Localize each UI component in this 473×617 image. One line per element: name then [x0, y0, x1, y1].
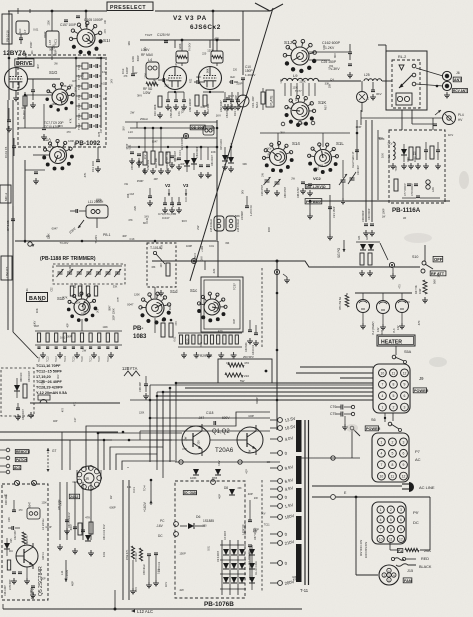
S10 wire up: [424, 245, 426, 261]
svg-text:BAND: BAND: [29, 296, 46, 302]
resistor R2: [23, 96, 27, 106]
svg-text:1KV: 1KV: [111, 78, 114, 83]
svg-text:C78 1500P: C78 1500P: [411, 183, 414, 196]
svg-text:L25: L25: [364, 73, 370, 77]
coil L25: [364, 79, 382, 81]
svg-text:120K: 120K: [145, 73, 147, 79]
svg-text:10K: 10K: [105, 20, 107, 25]
svg-text:56K: 56K: [206, 68, 210, 73]
wire caps cluster to bottom: [114, 590, 116, 609]
svg-text:40P: 40P: [248, 492, 253, 496]
svg-text:PB-1076B: PB-1076B: [204, 601, 234, 608]
svg-text:11: 11: [392, 371, 396, 375]
bridge rails: [221, 540, 223, 595]
svg-text:C43 644: C43 644: [245, 342, 248, 352]
component grid under S1B wires: [35, 330, 122, 332]
svg-text:12: 12: [399, 537, 403, 541]
wire S1I stem: [85, 11, 87, 27]
coupling capacitor 3uF V2-V3: [196, 80, 198, 84]
cluster resistors: [78, 523, 82, 535]
svg-text:3: 3: [400, 508, 402, 512]
svg-text:120K: 120K: [132, 56, 135, 62]
svg-text:PO ADJ: PO ADJ: [306, 199, 321, 204]
cap column x330: [329, 195, 331, 234]
svg-text:FAN: FAN: [404, 579, 412, 583]
svg-text:100P: 100P: [51, 103, 57, 106]
svg-text:R44: R44: [358, 235, 361, 240]
dots on J9 bus: [175, 382, 178, 385]
svg-text:10: 10: [379, 537, 383, 541]
terminal GT: [191, 258, 196, 263]
svg-text:47K: 47K: [293, 579, 298, 582]
svg-text:9: 9: [403, 463, 405, 467]
svg-text:R48: R48: [407, 157, 410, 162]
wire to relay: [382, 80, 392, 82]
svg-text:10K: 10K: [211, 150, 216, 154]
svg-text:1KV: 1KV: [144, 46, 147, 51]
svg-text:600P: 600P: [255, 397, 259, 404]
svg-text:1KV: 1KV: [72, 81, 77, 83]
svg-text:100P: 100P: [355, 125, 361, 129]
bus wires into J9: [300, 366, 373, 368]
long wire to switch: [152, 261, 420, 267]
svg-text:24S2: 24S2: [70, 495, 78, 499]
svg-text:S1I: S1I: [103, 38, 110, 43]
svg-text:C11 1KV: C11 1KV: [91, 161, 95, 172]
svg-text:0.01: 0.01: [102, 70, 108, 74]
svg-text:150P: 150P: [210, 125, 214, 132]
svg-text:7: 7: [381, 383, 383, 387]
svg-text:0.01: 0.01: [157, 569, 160, 574]
svg-text:10W: 10W: [418, 288, 422, 294]
grounds under grid: [42, 352, 44, 355]
V3 cathode parts: [203, 91, 224, 93]
svg-text:TC13: TC13: [56, 356, 58, 362]
svg-text:100V 80V 60V: 100V 80V 60V: [365, 542, 368, 558]
svg-text:47K: 47K: [83, 172, 87, 177]
svg-text:VC2: VC2: [313, 176, 322, 181]
junction dots mid cluster: [144, 127, 147, 130]
svg-text:MIC-2: MIC-2: [4, 193, 8, 201]
svg-text:C6 0.0047: C6 0.0047: [217, 550, 220, 562]
verticals mid cluster: [136, 122, 138, 128]
svg-text:33K: 33K: [62, 84, 67, 88]
attenuator diodes: [360, 244, 366, 250]
ground R2: [32, 102, 34, 105]
diode D6: [188, 523, 194, 529]
svg-text:0047: 0047: [27, 501, 31, 507]
svg-text:100P: 100P: [236, 81, 242, 85]
grid stopper caps: [162, 78, 164, 82]
fuse loop: [429, 497, 431, 550]
terminal band bus: [28, 242, 32, 246]
svg-text:3KV: 3KV: [300, 124, 305, 126]
double bus lines: [0, 431, 118, 433]
svg-text:TC11: TC11: [264, 523, 270, 526]
svg-text:10K: 10K: [35, 308, 39, 313]
svg-text:C62 0047: C62 0047: [219, 100, 223, 112]
svg-text:ACC: ACC: [14, 466, 22, 470]
svg-text:R68 100: R68 100: [20, 372, 23, 382]
svg-text:DC: DC: [413, 520, 419, 525]
svg-text:P9': P9': [413, 510, 419, 515]
svg-text:R67: R67: [323, 105, 327, 111]
svg-text:220: 220: [202, 52, 207, 55]
wires J9 to S6: [384, 413, 386, 422]
svg-text:L4: L4: [148, 58, 152, 62]
svg-text:0.01: 0.01: [60, 336, 66, 340]
svg-text:150P: 150P: [207, 176, 213, 178]
svg-text:L12 ALC: L12 ALC: [137, 609, 153, 614]
svg-text:1KV: 1KV: [217, 460, 221, 465]
arrow B+: [435, 110, 441, 115]
svg-text:PB-1116A: PB-1116A: [392, 207, 421, 214]
switch inside T-101A: [153, 251, 156, 254]
svg-text:C83 0047: C83 0047: [22, 409, 25, 420]
wire GT: [176, 260, 191, 262]
wire trimmer bus: [100, 58, 102, 128]
ground row PB-1116A: [392, 163, 394, 166]
svg-text:2: 2: [390, 508, 392, 512]
svg-text:C61 0047: C61 0047: [211, 155, 214, 166]
svg-text:40P: 40P: [71, 581, 75, 586]
wire y138 bus: [128, 137, 217, 139]
svg-text:TC11: TC11: [77, 113, 81, 120]
cap C21 left: [245, 205, 249, 207]
svg-text:100P: 100P: [66, 335, 72, 339]
wafer switch S1A: [50, 147, 67, 164]
svg-text:3uF: 3uF: [196, 75, 201, 79]
svg-text:1: 1: [380, 508, 382, 512]
small cluster caps: [16, 407, 20, 409]
svg-text:0047: 0047: [73, 481, 79, 484]
svg-text:12BY7A: 12BY7A: [3, 50, 27, 57]
svg-text:3KV: 3KV: [200, 256, 203, 261]
svg-text:RL-2: RL-2: [398, 55, 406, 59]
nested wire loops: [98, 433, 182, 470]
svg-text:3KV: 3KV: [280, 132, 285, 134]
svg-text:120K: 120K: [103, 327, 109, 329]
svg-text:TC14: TC14: [65, 356, 67, 362]
svg-text:D4: D4: [9, 549, 13, 553]
svg-text:10K: 10K: [380, 153, 384, 158]
cap C32 33P: [11, 526, 13, 530]
svg-text:0.01: 0.01: [132, 487, 136, 493]
wire heater drop: [395, 346, 397, 355]
junction in box: [265, 370, 268, 373]
svg-text:0.01: 0.01: [207, 545, 210, 550]
wafer switch S1K: [291, 102, 309, 120]
svg-text:1.2KV DC: 1.2KV DC: [242, 524, 245, 535]
svg-text:1: 1: [380, 440, 382, 444]
tube V2 6JS6C: [164, 67, 187, 90]
svg-text:150P: 150P: [172, 201, 175, 207]
dashed arrow GT: [47, 448, 49, 472]
svg-text:600P: 600P: [136, 55, 140, 61]
tube socket V6 rear: [77, 466, 101, 490]
svg-text:600P: 600P: [109, 505, 115, 509]
svg-text:220: 220: [197, 440, 201, 445]
wire y122 bus: [125, 121, 217, 123]
lamp grounds: [362, 313, 364, 323]
coil L11 box: [86, 205, 108, 218]
svg-text:TC12: TC12: [77, 123, 81, 130]
resistor pair: [161, 323, 165, 337]
AC plug: [409, 482, 414, 492]
wire switch down: [351, 430, 353, 458]
svg-text:33K: 33K: [225, 243, 230, 245]
svg-text:L13: L13: [128, 130, 133, 134]
svg-text:3KV: 3KV: [143, 221, 148, 225]
socket pins above: [281, 122, 285, 126]
cap C84: [148, 195, 152, 197]
node top ticks: [17, 8, 19, 14]
svg-text:C16 470P: C16 470P: [261, 185, 264, 196]
svg-text:12: 12: [403, 371, 407, 375]
junction dots plate bus: [181, 39, 184, 42]
svg-text:470: 470: [244, 361, 249, 365]
svg-text:PRESELECT: PRESELECT: [110, 5, 146, 11]
svg-text:6: 6: [403, 452, 405, 456]
rect cluster rails: [59, 482, 61, 540]
svg-text:40P: 40P: [53, 420, 58, 423]
svg-text:1.2KV DC: 1.2KV DC: [250, 205, 253, 216]
svg-text:150P: 150P: [29, 42, 33, 49]
svg-text:C84 600P: C84 600P: [195, 146, 199, 158]
svg-text:40P: 40P: [37, 64, 40, 69]
svg-text:14V: 14V: [377, 327, 380, 332]
svg-text:1W: 1W: [248, 449, 252, 454]
svg-text:470: 470: [175, 321, 178, 326]
svg-text:0.01: 0.01: [405, 301, 410, 304]
svg-text:C118: C118: [206, 411, 214, 415]
cathode cluster V2: [166, 99, 170, 101]
wire left drop: [8, 11, 10, 100]
cap C26: [12, 509, 16, 511]
svg-text:.047: .047: [198, 416, 204, 420]
svg-text:C21 150P: C21 150P: [332, 206, 336, 218]
remote label boxes: [15, 450, 29, 454]
svg-text:C20 40P: C20 40P: [357, 165, 360, 175]
svg-text:17,19,20: 17,19,20: [36, 375, 51, 379]
svg-text:R15 120K: R15 120K: [220, 139, 223, 150]
svg-text:2W: 2W: [82, 348, 86, 352]
wire S1J to caps: [309, 51, 350, 53]
svg-text:C88 470P: C88 470P: [284, 187, 287, 198]
svg-text:47K: 47K: [85, 515, 90, 519]
svg-text:0047: 0047: [108, 305, 111, 311]
svg-text:0.01: 0.01: [178, 111, 181, 116]
parasitic choke V2: [176, 51, 188, 63]
grounds resistor bank: [144, 168, 146, 171]
svg-text:1W: 1W: [261, 173, 265, 178]
coil taps: [284, 83, 286, 96]
svg-text:40P: 40P: [180, 163, 185, 166]
svg-text:5W: 5W: [240, 379, 245, 383]
svg-text:5: 5: [392, 394, 394, 398]
transformer left cluster caps: [248, 519, 252, 521]
svg-text:TV-2KV: TV-2KV: [189, 42, 192, 51]
capacitor right of V3: [230, 80, 232, 84]
BUFF extra parts: [7, 560, 10, 570]
svg-text:1.2KHV: 1.2KHV: [245, 73, 255, 77]
svg-text:120K: 120K: [134, 293, 140, 296]
svg-text:V3: V3: [183, 183, 189, 188]
connector P9 DC: [372, 502, 406, 544]
svg-text:L7: L7: [23, 29, 27, 33]
svg-text:TC97: TC97: [233, 283, 237, 290]
svg-text:1KV: 1KV: [134, 587, 138, 592]
svg-text:250uH: 250uH: [140, 117, 148, 121]
svg-text:0.01: 0.01: [127, 487, 132, 489]
ground V1 cathode: [15, 95, 17, 98]
svg-text:S6: S6: [371, 418, 376, 422]
screen components: [226, 97, 230, 99]
dashed board edge: [261, 480, 263, 592]
svg-text:40P: 40P: [154, 178, 159, 181]
svg-text:56K: 56K: [142, 168, 146, 173]
svg-text:120K: 120K: [48, 233, 51, 239]
svg-text:+160V: +160V: [143, 501, 147, 512]
resistor bank mid: [143, 152, 147, 165]
svg-text:TC6: TC6: [77, 64, 81, 70]
svg-text:600P: 600P: [43, 31, 47, 37]
bridge diodes: [223, 549, 229, 555]
svg-text:TC9: TC9: [77, 94, 81, 100]
svg-text:C40 600P: C40 600P: [367, 208, 371, 220]
wire vertical x217: [216, 120, 218, 240]
wafer switch S1B: [74, 299, 90, 315]
terminal top PB1076: [211, 480, 216, 485]
svg-text:C39 600P: C39 600P: [361, 210, 365, 222]
dashed board PB-1092: [18, 55, 106, 147]
emitter bus: [175, 461, 280, 463]
svg-text:9: 9: [404, 383, 406, 387]
connector a HV: [443, 112, 456, 125]
svg-text:0047: 0047: [269, 226, 271, 232]
svg-text:0047: 0047: [127, 302, 134, 306]
svg-text:S5A: S5A: [404, 350, 412, 354]
svg-text:120K: 120K: [207, 48, 214, 52]
svg-text:BLACK: BLACK: [419, 565, 432, 569]
connector J15 FAN: [379, 565, 399, 585]
svg-text:S10: S10: [412, 255, 418, 259]
svg-text:C99: C99: [201, 107, 206, 109]
label OFF box: [433, 256, 443, 262]
svg-text:L36 100uH: L36 100uH: [236, 219, 240, 232]
svg-text:TC11,16 70PF: TC11,16 70PF: [36, 364, 61, 368]
svg-text:120K: 120K: [299, 79, 306, 83]
cluster diode: [85, 535, 91, 541]
jack J7 RCV: [442, 81, 451, 90]
svg-text:C13: C13: [130, 237, 135, 241]
svg-text:2: 2: [392, 405, 394, 409]
wire plate bus: [140, 39, 240, 41]
extra diode mid: [222, 155, 228, 161]
wire fuse to P9: [389, 543, 391, 550]
svg-text:150P: 150P: [137, 179, 144, 183]
diode D5 in PB-1116A: [401, 149, 407, 155]
diode D3: [191, 158, 197, 164]
svg-text:RED: RED: [421, 557, 429, 561]
svg-text:P7: P7: [415, 449, 421, 454]
svg-text:40P: 40P: [100, 128, 103, 133]
wire PB1116A bottom bus: [310, 200, 450, 202]
svg-text:3KV: 3KV: [58, 124, 63, 128]
svg-text:TV-2KV: TV-2KV: [60, 241, 69, 245]
svg-text:3KV: 3KV: [243, 189, 245, 194]
svg-text:2W: 2W: [184, 436, 188, 441]
svg-text:40V 300K 20V: 40V 300K 20V: [360, 540, 363, 556]
junction dot mid wire: [276, 260, 279, 263]
connector P7 AC: [372, 433, 409, 482]
pilot lamp PL3: [396, 300, 409, 313]
transformer secondary to AC plug: [312, 485, 402, 487]
svg-text:VC1: VC1: [54, 39, 58, 45]
svg-text:40P: 40P: [234, 95, 238, 100]
lamp wire: [355, 292, 412, 294]
svg-text:10K: 10K: [31, 50, 34, 55]
boxed label DC GUN: [183, 491, 196, 495]
svg-text:S1K: S1K: [318, 100, 326, 105]
ground PB1116A bus: [309, 200, 312, 203]
+160V arrow: [150, 480, 152, 505]
svg-text:150P: 150P: [179, 552, 186, 556]
svg-text:C25 150P: C25 150P: [321, 60, 337, 64]
svg-text:OFF: OFF: [434, 257, 443, 262]
capacitor C30 100P: [75, 209, 77, 213]
wire column x25: [24, 160, 26, 243]
svg-text:1KV: 1KV: [164, 582, 168, 587]
svg-text:L7M 215: L7M 215: [5, 266, 9, 278]
label FAN box: [403, 578, 412, 583]
svg-text:PL2 (3MAV): PL2 (3MAV): [372, 321, 375, 335]
emitter wire to transformer: [298, 457, 360, 459]
pilot lamp PL2: [377, 301, 390, 314]
svg-text:C4 0047: C4 0047: [224, 530, 227, 540]
terminals emitter bus: [179, 460, 183, 464]
SG PO arrow: [343, 240, 345, 252]
resistor RF 5Ω: [146, 82, 158, 86]
svg-text:TC17: TC17: [91, 356, 93, 362]
svg-text:SG PO: SG PO: [337, 247, 341, 258]
extra diode column PB1076B: [249, 549, 255, 555]
svg-text:47K: 47K: [69, 118, 73, 123]
svg-text:40P: 40P: [82, 305, 86, 310]
svg-text:R52 220K: R52 220K: [58, 499, 61, 510]
wafer switch S1D2: [146, 299, 164, 317]
svg-text:0047: 0047: [169, 304, 172, 310]
second top diagonal: [255, 3, 270, 11]
svg-text:RCV ANT: RCV ANT: [453, 89, 467, 93]
svg-text:3KV: 3KV: [261, 514, 266, 516]
svg-text:470: 470: [67, 131, 72, 134]
svg-text:1: 1: [381, 405, 383, 409]
fuse bump: [38, 395, 50, 400]
svg-text:0.01: 0.01: [33, 28, 39, 32]
svg-text:C58 40uF: C58 40uF: [143, 564, 146, 575]
terminal rf line: [389, 262, 394, 267]
resistor R6 box: [261, 92, 265, 104]
svg-text:KEEP MAX 1T: KEEP MAX 1T: [352, 151, 355, 168]
wires relay to jacks: [416, 68, 443, 76]
svg-text:1KV: 1KV: [448, 133, 453, 137]
svg-text:6JS6Cx2: 6JS6Cx2: [190, 24, 221, 31]
svg-text:TC16: TC16: [82, 356, 84, 362]
svg-text:JR: JR: [85, 477, 90, 481]
svg-text:220: 220: [212, 268, 216, 273]
trimmer row wire: [56, 265, 122, 267]
